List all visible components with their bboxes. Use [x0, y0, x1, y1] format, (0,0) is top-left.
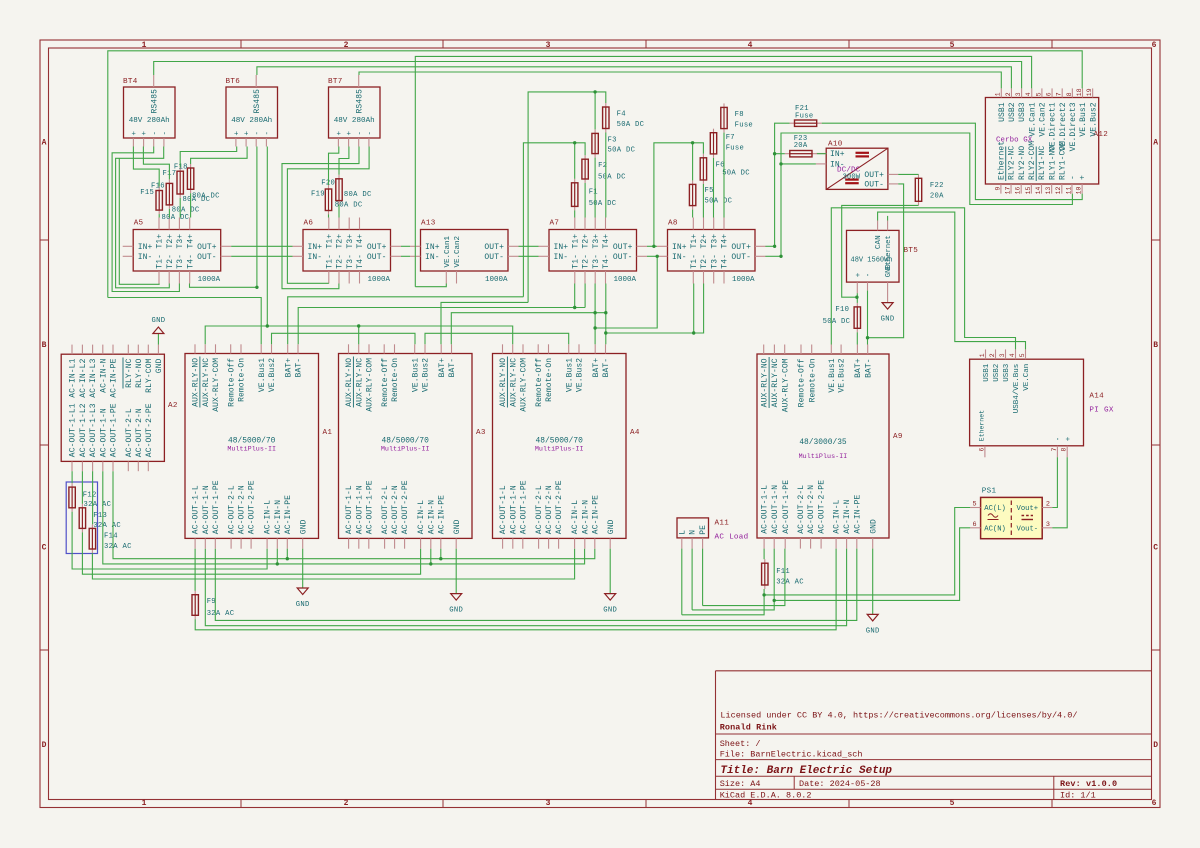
fuse F23	[785, 135, 817, 157]
svg-text:1: 1	[979, 353, 986, 357]
fuse F20	[321, 175, 372, 205]
wire row A1 BAT- to A7 T1- T2-	[298, 308, 585, 345]
svg-text:F1: F1	[589, 188, 598, 196]
wire BT6 pin4 down	[266, 147, 268, 327]
svg-text:80A DC: 80A DC	[172, 206, 200, 214]
svg-text:T4-: T4-	[356, 254, 365, 269]
svg-text:RLY1-NC: RLY1-NC	[1038, 146, 1047, 180]
wire A5 OUT- to A6 IN-	[231, 255, 292, 257]
svg-text:VE.Can1: VE.Can1	[1028, 102, 1037, 136]
wire F3 top tap	[594, 92, 596, 129]
svg-text:RS485: RS485	[356, 89, 365, 114]
wire BT5 minus to A9 BAT-	[867, 291, 869, 345]
wire F7 to A8 T3+	[713, 158, 715, 218]
svg-text:-: -	[356, 131, 364, 136]
wire F2 to A7 T2+	[584, 183, 586, 218]
wire net F1 F2 tops	[523, 143, 585, 297]
svg-text:IN-: IN-	[672, 253, 687, 262]
svg-text:AC-IN-L: AC-IN-L	[264, 500, 273, 534]
svg-text:A: A	[1153, 139, 1158, 148]
svg-text:4: 4	[748, 41, 753, 50]
svg-text:+: +	[141, 131, 149, 136]
svg-text:AC-IN-PE: AC-IN-PE	[591, 495, 600, 534]
svg-text:AC-OUT-1-N: AC-OUT-1-N	[355, 485, 364, 534]
svg-text:AC-OUT-2-N: AC-OUT-2-N	[807, 485, 816, 534]
wire A9 VE.Bus1 to Pi GX pin4	[831, 208, 1015, 350]
svg-text:BT7: BT7	[328, 78, 343, 86]
svg-text:T4+: T4+	[186, 234, 195, 249]
svg-text:80A DC: 80A DC	[162, 214, 190, 222]
svg-text:F3: F3	[608, 136, 617, 144]
svg-text:Remote-On: Remote-On	[545, 358, 554, 402]
fuse F2	[582, 155, 626, 183]
svg-text:B: B	[42, 341, 47, 350]
svg-text:48V 280Ah: 48V 280Ah	[334, 117, 375, 125]
svg-text:F19: F19	[311, 190, 325, 198]
wire F23 left lead link	[775, 153, 785, 155]
svg-text:+: +	[234, 131, 242, 136]
wire F10 to A9 BAT+	[856, 332, 858, 344]
svg-text:MultiPlus-II: MultiPlus-II	[799, 453, 848, 461]
svg-text:BAT+: BAT+	[854, 358, 863, 378]
svg-text:AC-OUT-2-PE: AC-OUT-2-PE	[145, 403, 154, 457]
svg-text:7: 7	[1051, 447, 1058, 451]
wire A1 AC-OUT-1-L to F9	[194, 549, 196, 591]
svg-text:T4+: T4+	[602, 234, 611, 249]
wire BT6 pin3 down	[256, 147, 258, 288]
svg-text:3: 3	[999, 353, 1006, 357]
wire BT4 pin2 to F16	[143, 147, 169, 180]
wire A7 T3- to A4 BAT+	[594, 284, 596, 345]
svg-text:BT4: BT4	[123, 78, 138, 86]
svg-text:CAN: CAN	[875, 235, 883, 249]
svg-text:BT6: BT6	[226, 78, 241, 86]
svg-text:Vout+: Vout+	[1017, 505, 1039, 513]
svg-text:OUT-: OUT-	[864, 181, 884, 190]
svg-text:-: -	[162, 131, 170, 136]
svg-text:GND: GND	[155, 358, 164, 373]
wire net minus riser	[781, 133, 1072, 256]
svg-text:T1-: T1-	[325, 254, 334, 269]
svg-text:A10: A10	[828, 141, 843, 149]
svg-text:OUT+: OUT+	[731, 243, 751, 252]
svg-text:Licensed under CC BY 4.0, http: Licensed under CC BY 4.0, https://creati…	[720, 711, 1077, 721]
svg-text:VE.Bus2: VE.Bus2	[422, 358, 431, 392]
svg-text:T3+: T3+	[346, 234, 355, 249]
svg-text:AC-OUT-1-L: AC-OUT-1-L	[345, 485, 354, 534]
wire BT7 pin2 to F20	[339, 147, 349, 175]
svg-text:18: 18	[1076, 88, 1083, 96]
svg-text:GND: GND	[866, 627, 880, 635]
svg-text:32A AC: 32A AC	[776, 579, 804, 587]
converter A10 DC/DC	[816, 141, 898, 190]
svg-text:AC-OUT-1-L1: AC-OUT-1-L1	[69, 403, 78, 457]
svg-text:RLY-NC: RLY-NC	[125, 358, 134, 388]
svg-text:PI GX: PI GX	[1089, 406, 1113, 414]
svg-text:GND: GND	[869, 519, 878, 534]
svg-text:AUX-RLY-NO: AUX-RLY-NO	[192, 358, 201, 407]
svg-text:OUT-: OUT-	[484, 253, 504, 262]
busbar A8	[657, 218, 766, 284]
svg-text:VE.Can2: VE.Can2	[1039, 102, 1048, 136]
svg-text:+: +	[131, 131, 139, 136]
wire net N bottom	[205, 549, 846, 626]
svg-text:T4+: T4+	[356, 234, 365, 249]
svg-text:VE.Bus2: VE.Bus2	[576, 358, 585, 392]
svg-text:AC-OUT-2-N: AC-OUT-2-N	[545, 485, 554, 534]
inverter A4 MultiPlus-II	[493, 344, 640, 548]
connector A11 AC Load	[677, 518, 749, 549]
svg-text:T2+: T2+	[336, 234, 345, 249]
svg-text:1000A: 1000A	[732, 276, 755, 284]
svg-text:6: 6	[978, 447, 985, 451]
svg-text:MultiPlus-II: MultiPlus-II	[535, 446, 584, 454]
svg-text:2: 2	[1046, 501, 1050, 509]
svg-text:A7: A7	[550, 220, 560, 228]
svg-text:T2-: T2-	[336, 254, 345, 269]
svg-text:Id: 1/1: Id: 1/1	[1060, 791, 1096, 801]
svg-text:IN+: IN+	[138, 243, 153, 252]
fuse F21	[790, 105, 822, 126]
wire row A3 BAT- to A7 T3- T4-	[451, 313, 606, 345]
svg-text:AC-OUT-2-PE: AC-OUT-2-PE	[401, 480, 410, 534]
svg-text:T3-: T3-	[710, 254, 719, 269]
svg-text:2: 2	[344, 41, 349, 50]
svg-text:A4: A4	[630, 429, 640, 437]
svg-text:Date: 2024-05-28: Date: 2024-05-28	[799, 779, 881, 789]
svg-text:1: 1	[142, 41, 147, 50]
svg-text:PE: PE	[699, 525, 708, 535]
wire net VE.Bus1 to Cerbo pin18	[108, 51, 1082, 298]
svg-text:Remote-On: Remote-On	[238, 358, 247, 402]
wire F23 to A10 IN+	[817, 153, 826, 155]
svg-text:48V 280Ah: 48V 280Ah	[129, 117, 170, 125]
wire BT5 plus to F10	[856, 293, 858, 303]
wire net L3 phase	[92, 549, 574, 579]
svg-text:AC-OUT-2-PE: AC-OUT-2-PE	[818, 480, 827, 534]
svg-text:OUT-: OUT-	[731, 253, 751, 262]
svg-text:AC-OUT-1-L3: AC-OUT-1-L3	[89, 403, 98, 457]
svg-text:GND: GND	[603, 607, 617, 615]
wire A9 AC-OUT-1-PE to A11 PE	[703, 549, 785, 606]
svg-text:2: 2	[1005, 92, 1012, 96]
svg-text:A: A	[42, 139, 47, 148]
wire net L2 phase	[82, 532, 420, 574]
wire A6 OUT+ to A13 IN+	[401, 245, 410, 247]
wire A7 T1- tap	[574, 284, 576, 308]
wire F1 to A7 T1+	[574, 210, 576, 217]
wire A13 OUT+ to A7 IN+	[519, 245, 539, 247]
ground symbol below A9	[866, 549, 880, 636]
svg-text:T2+: T2+	[166, 234, 175, 249]
svg-text:IN+: IN+	[425, 243, 440, 252]
svg-text:2: 2	[989, 353, 996, 357]
fuse F15	[140, 187, 189, 223]
svg-text:MultiPlus-II: MultiPlus-II	[381, 446, 430, 454]
svg-text:RLY2-COM: RLY2-COM	[1028, 141, 1037, 180]
wire F4 to A7 T4+	[605, 133, 607, 218]
fuse F8	[721, 103, 753, 132]
svg-text:AUX-RLY-NC: AUX-RLY-NC	[771, 358, 780, 407]
svg-text:6: 6	[1152, 799, 1157, 808]
svg-text:T3-: T3-	[592, 254, 601, 269]
wire BT4 pin3 to A5 T3-	[112, 147, 179, 292]
wire A1 VE.Bus2 to A3 VE.Bus1	[272, 333, 416, 344]
svg-text:L: L	[678, 530, 687, 535]
wire F5 to A8 T1+	[692, 210, 694, 218]
fuse F11	[762, 559, 805, 589]
svg-text:AC-IN-N: AC-IN-N	[99, 358, 108, 392]
svg-text:AC-OUT-1-N: AC-OUT-1-N	[509, 485, 518, 534]
svg-text:F16: F16	[151, 182, 165, 190]
svg-text:Fuse: Fuse	[735, 122, 753, 130]
wire PS1 Vout- to Pi GX pin8	[1052, 457, 1067, 528]
svg-text:F8: F8	[735, 111, 744, 119]
svg-text:AC-OUT-1-N: AC-OUT-1-N	[202, 485, 211, 534]
svg-text:T1+: T1+	[571, 234, 580, 249]
fuse F10	[823, 303, 861, 332]
svg-text:USB1: USB1	[983, 363, 991, 382]
wire net F5 F6 tops	[654, 143, 704, 247]
svg-text:Remote-Off: Remote-Off	[381, 358, 390, 407]
wire F1 top tap	[574, 143, 576, 179]
wire A8 OUT+ to plus net	[765, 245, 774, 247]
wire A10 OUT+ to F22	[898, 173, 918, 175]
ground symbol below A4	[603, 549, 617, 615]
svg-text:T4-: T4-	[721, 254, 730, 269]
svg-text:F11: F11	[776, 568, 790, 576]
wire BT7 pin4 to A6 T1-	[287, 147, 369, 284]
svg-text:OUT+: OUT+	[864, 171, 884, 180]
wire net PE bottom	[215, 549, 857, 621]
svg-text:48/5000/70: 48/5000/70	[228, 436, 276, 445]
svg-text:F12: F12	[83, 491, 97, 499]
fuse F17	[163, 167, 211, 204]
svg-text:1: 1	[142, 799, 147, 808]
wire A3 AC-IN-PE tap	[440, 549, 442, 559]
svg-text:-: -	[151, 131, 159, 136]
svg-text:BAT-: BAT-	[448, 358, 457, 378]
wire A9 AC-OUT-1-L to F11	[763, 549, 765, 560]
svg-text:T1-: T1-	[156, 254, 165, 269]
svg-text:KiCad E.D.A. 8.0.2: KiCad E.D.A. 8.0.2	[720, 791, 812, 801]
wire row A3 BAT+ to F3 F4	[441, 302, 528, 344]
svg-text:50A DC: 50A DC	[608, 147, 636, 155]
svg-text:AC-IN-N: AC-IN-N	[581, 500, 590, 534]
svg-text:AUX-RLY-NC: AUX-RLY-NC	[202, 358, 211, 407]
svg-text:AC-IN-PE: AC-IN-PE	[437, 495, 446, 534]
wire A10 IN- to minus net	[781, 163, 816, 165]
svg-text:5: 5	[1019, 353, 1026, 357]
svg-text:T1+: T1+	[690, 234, 699, 249]
fuse F1	[572, 179, 617, 211]
wire net RS485 BT4 to Cerbo pin3	[154, 62, 1022, 89]
svg-text:VE.Bus2: VE.Bus2	[838, 358, 847, 392]
svg-text:BAT+: BAT+	[438, 358, 447, 378]
svg-text:3: 3	[1015, 92, 1022, 96]
ground symbol below BT5	[881, 303, 895, 324]
svg-text:T1+: T1+	[156, 234, 165, 249]
wire net RS485 BT6 to Cerbo pin2	[257, 67, 1012, 89]
svg-text:B: B	[1153, 341, 1158, 350]
svg-text:T3+: T3+	[176, 234, 185, 249]
svg-text:Size: A4: Size: A4	[720, 779, 761, 789]
svg-text:AC-IN-L1: AC-IN-L1	[69, 358, 78, 397]
svg-text:-: -	[264, 131, 272, 136]
svg-text:RLY2-NC: RLY2-NC	[1008, 146, 1017, 180]
wire net F3 F4 tops	[528, 92, 606, 303]
svg-text:1000A: 1000A	[367, 276, 390, 284]
svg-text:AC Load: AC Load	[715, 534, 749, 542]
connector A2	[61, 345, 178, 472]
ground symbol below A1	[296, 549, 310, 609]
svg-text:80A DC: 80A DC	[192, 192, 220, 200]
svg-text:AUX-RLY-NC: AUX-RLY-NC	[355, 358, 364, 407]
svg-text:OUT-: OUT-	[613, 253, 633, 262]
wire net VE.Can1 to Cerbo pin4	[415, 56, 1031, 286]
inverter A9 MultiPlus-II	[757, 345, 903, 549]
svg-text:T4-: T4-	[602, 254, 611, 269]
svg-text:BAT+: BAT+	[284, 358, 293, 378]
svg-text:USB2: USB2	[993, 364, 1001, 382]
svg-text:D: D	[42, 741, 47, 750]
svg-text:MultiPlus-II: MultiPlus-II	[227, 446, 276, 454]
svg-text:17: 17	[1004, 186, 1011, 194]
svg-text:VE.Bus1: VE.Bus1	[411, 358, 420, 392]
wire A2 L1 to F12	[71, 471, 73, 483]
svg-text:AC-OUT-2-L: AC-OUT-2-L	[797, 485, 806, 534]
svg-text:48/3000/35: 48/3000/35	[799, 438, 847, 447]
wire BT5 CAN to Pi GX pin5	[878, 212, 1026, 349]
wire A8 OUT- to minus net	[765, 255, 781, 257]
wire net RS485 BT7 to Cerbo pin1	[359, 72, 1001, 88]
svg-text:AUX-RLY-COM: AUX-RLY-COM	[212, 358, 221, 412]
svg-text:32A AC: 32A AC	[104, 543, 132, 551]
svg-text:RS485: RS485	[151, 89, 160, 114]
svg-text:8: 8	[1061, 447, 1068, 451]
svg-text:T3-: T3-	[176, 254, 185, 269]
svg-text:GND: GND	[449, 607, 463, 615]
svg-text:IN+: IN+	[554, 243, 569, 252]
svg-text:2: 2	[344, 799, 349, 808]
svg-text:AC-IN-PE: AC-IN-PE	[110, 358, 119, 397]
svg-text:-: -	[254, 131, 262, 136]
ground symbol above A2	[151, 317, 165, 345]
wire A5 T1- loop	[119, 158, 159, 284]
svg-text:Remote-On: Remote-On	[808, 358, 817, 402]
wire F11 bottom to A11 L	[682, 589, 764, 615]
svg-text:File: BarnElectric.kicad_sch: File: BarnElectric.kicad_sch	[720, 750, 863, 760]
svg-text:Remote-Off: Remote-Off	[535, 358, 544, 407]
svg-text:USB2: USB2	[1008, 102, 1017, 122]
svg-text:16: 16	[1015, 186, 1022, 194]
svg-text:4: 4	[1025, 92, 1032, 96]
wire A11 L riser	[681, 549, 683, 615]
wire A1 AC-IN-N tap	[276, 549, 278, 564]
wire A7 T2- drop	[584, 284, 586, 308]
svg-text:BAT-: BAT-	[864, 358, 873, 378]
svg-text:AC-IN-PE: AC-IN-PE	[853, 494, 862, 533]
fuse F18	[174, 163, 220, 200]
svg-text:BAT-: BAT-	[602, 358, 611, 378]
svg-text:T4+: T4+	[721, 234, 730, 249]
wire A2 L3 to F14	[92, 471, 94, 524]
controller A14 Pi GX	[970, 349, 1114, 457]
wire A3 AUX-RLY-NC tap	[358, 326, 360, 344]
svg-text:AC-OUT-1-L: AC-OUT-1-L	[192, 485, 201, 534]
fuse F19	[311, 185, 363, 215]
svg-text:VE.Bus2: VE.Bus2	[1089, 102, 1098, 136]
wire A7 OUT+ to A8 IN+	[647, 245, 657, 247]
svg-text:5: 5	[950, 799, 955, 808]
wire F22 bottom run	[842, 205, 919, 297]
svg-text:AC-IN-L: AC-IN-L	[571, 500, 580, 534]
svg-text:A1: A1	[323, 429, 333, 437]
svg-text:T3+: T3+	[592, 234, 601, 249]
wire row VE.Bus1 to A1	[108, 298, 261, 345]
svg-text:Remote-On: Remote-On	[391, 358, 400, 402]
wire A10 OUT- down	[868, 184, 904, 338]
svg-text:AC-OUT-2-N: AC-OUT-2-N	[135, 408, 144, 457]
svg-text:T1+: T1+	[325, 234, 334, 249]
svg-text:+: +	[336, 131, 344, 136]
selection box around F12 F13 F14	[66, 482, 97, 554]
svg-text:AC-OUT-1-L: AC-OUT-1-L	[761, 485, 770, 534]
svg-text:Sheet: /: Sheet: /	[720, 739, 761, 749]
wire row A1 BAT+ to F1 F2	[288, 297, 524, 345]
svg-text:F6: F6	[716, 162, 725, 170]
wire A13 VE.Can1 drop	[415, 284, 446, 287]
svg-text:AC-OUT-1-PE: AC-OUT-1-PE	[365, 480, 374, 534]
svg-text:AC-OUT-1-PE: AC-OUT-1-PE	[110, 403, 119, 457]
svg-text:80A DC: 80A DC	[344, 191, 372, 199]
svg-text:10: 10	[1076, 186, 1083, 194]
svg-text:AC(L): AC(L)	[984, 505, 1006, 513]
wire row AUX-RLY-NC chain	[205, 326, 513, 344]
wire A11 PE riser	[702, 549, 704, 606]
svg-text:F5: F5	[705, 187, 714, 195]
svg-text:BT5: BT5	[904, 247, 919, 255]
svg-text:RLY2-NO: RLY2-NO	[1018, 146, 1027, 180]
svg-text:4: 4	[1009, 353, 1016, 357]
svg-text:IN+: IN+	[672, 243, 687, 252]
wire F20 to A6 T2+	[338, 205, 340, 218]
svg-text:12: 12	[1055, 186, 1062, 194]
svg-text:AC-IN-L: AC-IN-L	[833, 499, 842, 533]
svg-text:GND: GND	[296, 601, 310, 609]
svg-text:USB3: USB3	[1003, 363, 1011, 382]
svg-text:-: -	[865, 273, 873, 278]
fuse F9	[192, 591, 235, 620]
svg-text:C: C	[42, 544, 47, 553]
svg-text:PS1: PS1	[982, 488, 997, 496]
power supply PS1	[970, 488, 1052, 539]
svg-text:A5: A5	[134, 220, 144, 228]
svg-text:6: 6	[972, 521, 976, 529]
wire branch T3- to F5 F6 net	[595, 256, 657, 328]
svg-text:AC-OUT-1-N: AC-OUT-1-N	[99, 408, 108, 457]
svg-text:50A DC: 50A DC	[598, 174, 626, 182]
svg-text:AUX-RLY-COM: AUX-RLY-COM	[520, 358, 529, 412]
svg-text:AC-IN-N: AC-IN-N	[843, 499, 852, 533]
svg-text:7: 7	[1056, 92, 1063, 96]
svg-text:AUX-RLY-NC: AUX-RLY-NC	[509, 358, 518, 407]
controller A12 Cerbo GX	[985, 88, 1108, 194]
wire A3 VE.Bus2 to A4 VE.Bus1	[425, 333, 569, 344]
svg-text:RLY1-COM: RLY1-COM	[1058, 141, 1067, 180]
svg-text:AC-OUT-2-N: AC-OUT-2-N	[391, 485, 400, 534]
svg-text:5: 5	[972, 501, 976, 509]
